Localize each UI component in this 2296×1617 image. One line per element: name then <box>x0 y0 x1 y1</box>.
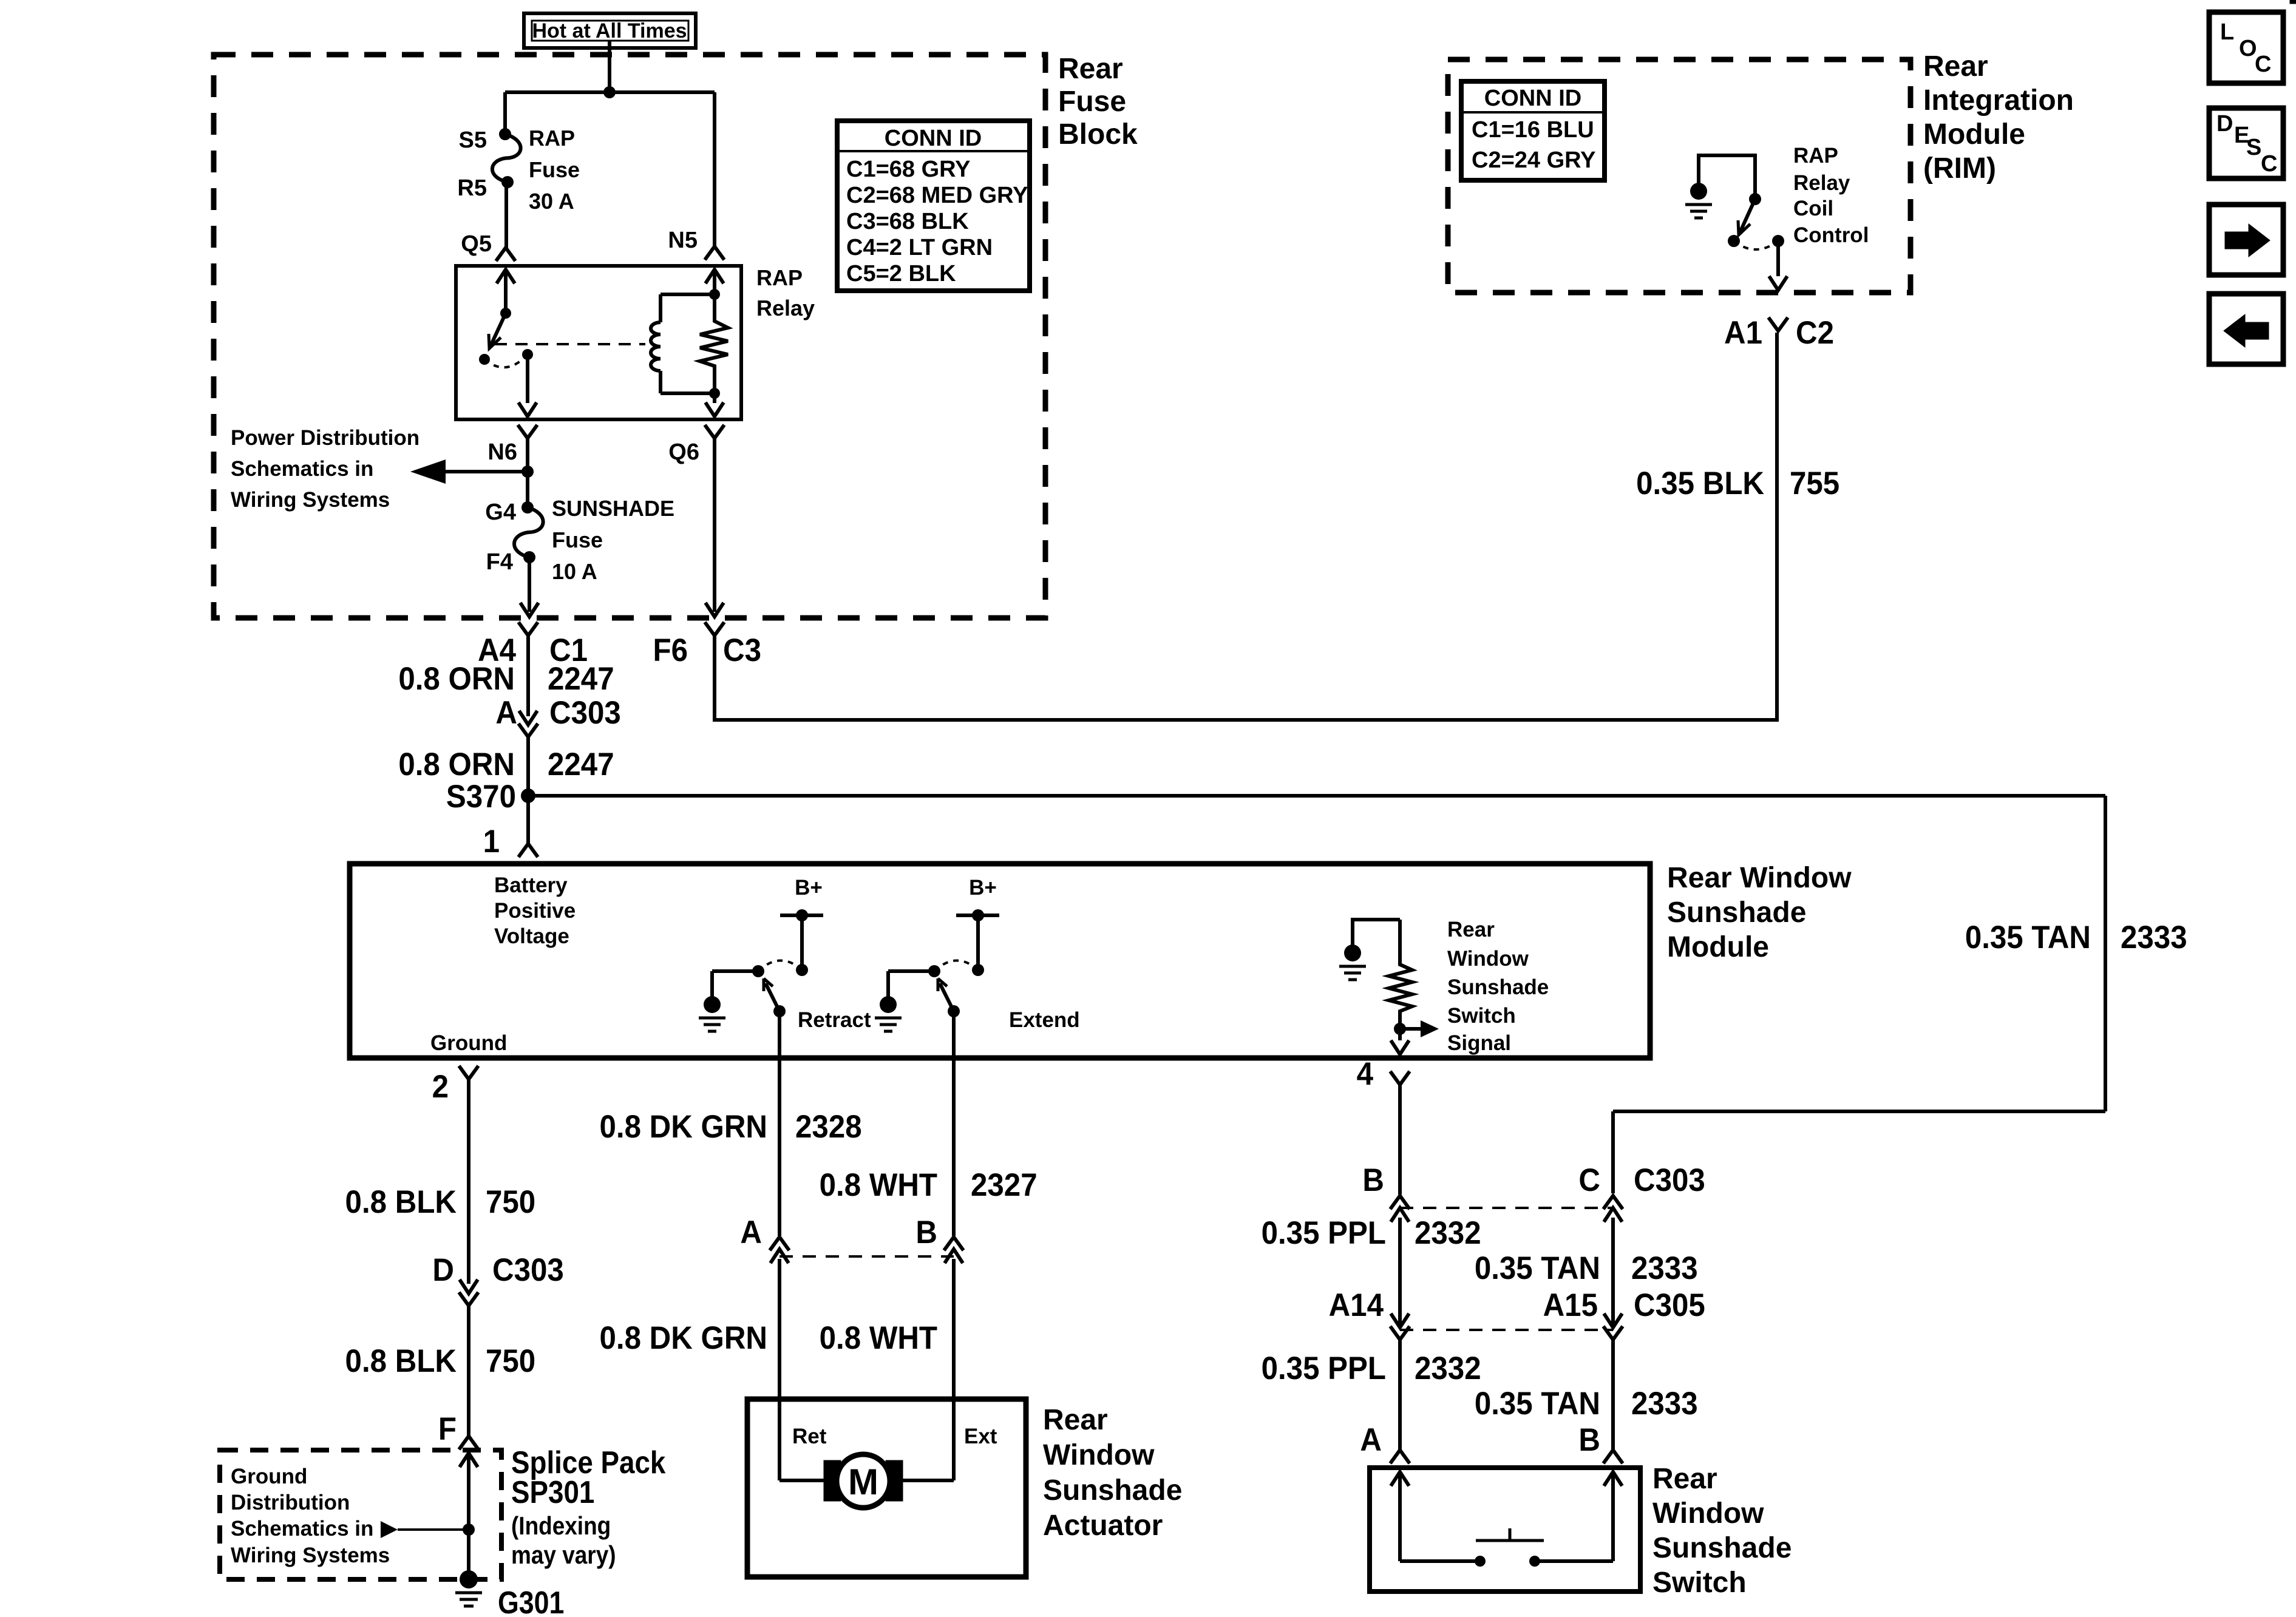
svg-text:Distribution: Distribution <box>231 1491 350 1514</box>
svg-text:2: 2 <box>432 1068 449 1104</box>
splice pack arrow entry <box>460 1453 478 1579</box>
svg-text:N6: N6 <box>487 439 517 465</box>
svg-text:(RIM): (RIM) <box>1923 152 1996 185</box>
svg-text:N5: N5 <box>668 228 698 253</box>
svg-text:Rear Window: Rear Window <box>1667 862 1852 894</box>
svg-text:0.8 ORN: 0.8 ORN <box>398 746 515 782</box>
wire branch to C connector <box>1613 1111 2105 1193</box>
connector A15 C305 <box>1543 1287 1705 1340</box>
svg-text:B+: B+ <box>969 876 997 900</box>
svg-text:M: M <box>848 1462 878 1502</box>
svg-text:A15: A15 <box>1543 1287 1598 1323</box>
relay switch arm <box>489 313 506 348</box>
connector B actuator <box>915 1214 963 1263</box>
svg-text:CONN ID: CONN ID <box>1484 86 1581 111</box>
svg-text:2333: 2333 <box>1631 1385 1698 1421</box>
svg-text:0.35 PPL: 0.35 PPL <box>1262 1215 1386 1250</box>
svg-text:RAP: RAP <box>1793 144 1838 168</box>
svg-text:Retract: Retract <box>798 1008 871 1032</box>
svg-text:D: D <box>2216 111 2233 137</box>
sidebar next arrow button <box>2209 205 2283 275</box>
relay coil junction bottom <box>709 388 720 399</box>
junction N6 tap <box>521 466 534 478</box>
label G301 <box>498 1585 564 1617</box>
pin B switch connector <box>1578 1422 1623 1463</box>
module extend contact left <box>888 965 940 977</box>
svg-text:A: A <box>1360 1422 1382 1457</box>
wire A15 down <box>1611 1340 1615 1450</box>
label wire 0.8 DK GRN lower <box>599 1320 767 1355</box>
module extend arm <box>938 978 960 1017</box>
label wire 0.35 PPL 2332 first <box>1262 1215 1481 1250</box>
svg-text:4: 4 <box>1357 1056 1374 1091</box>
relay coil L1 <box>651 294 715 393</box>
svg-text:R5: R5 <box>457 175 487 201</box>
svg-text:Switch: Switch <box>1447 1004 1516 1028</box>
relay coil junction top <box>709 289 720 300</box>
pin A switch connector <box>1360 1422 1410 1463</box>
switch pushbutton <box>1400 1528 1613 1567</box>
label wire 0.35 TAN 2333 mid <box>1475 1250 1698 1286</box>
svg-text:755: 755 <box>1790 465 1839 501</box>
svg-text:0.35 BLK: 0.35 BLK <box>1636 465 1764 501</box>
svg-text:Actuator: Actuator <box>1043 1510 1163 1542</box>
svg-text:C5=2 BLK: C5=2 BLK <box>846 261 956 286</box>
svg-text:10 A: 10 A <box>552 559 597 584</box>
svg-text:Wiring Systems: Wiring Systems <box>231 1544 390 1567</box>
label wire 0.8 BLK 750 upper <box>345 1184 536 1219</box>
Rear Window Sunshade Switch box <box>1370 1468 1640 1592</box>
ground RIM relay coil driver <box>1685 183 1712 218</box>
label wire 0.8 WHT 2327 <box>820 1167 1038 1202</box>
svg-text:F: F <box>438 1411 457 1446</box>
label wire 0.8 WHT lower <box>820 1320 937 1355</box>
svg-text:CONN ID: CONN ID <box>885 126 982 151</box>
svg-text:A14: A14 <box>1329 1287 1384 1323</box>
svg-text:Block: Block <box>1058 118 1138 151</box>
connector A1 C2 <box>1724 314 1834 350</box>
svg-text:Rear: Rear <box>1923 50 1988 83</box>
label wire 0.8 BLK 750 lower <box>345 1343 536 1378</box>
ground G301 <box>455 1570 482 1606</box>
svg-text:0.8 BLK: 0.8 BLK <box>345 1184 457 1219</box>
label Rear Integration Module (RIM) <box>1923 50 2074 185</box>
table CONN ID (RIM) <box>1461 81 1605 180</box>
svg-text:Rear: Rear <box>1058 53 1123 85</box>
svg-text:0.8 DK GRN: 0.8 DK GRN <box>599 1108 767 1144</box>
dashed connector line actuator <box>779 1255 954 1258</box>
svg-text:750: 750 <box>486 1184 535 1219</box>
wire S370 to module pin 1 <box>526 796 530 844</box>
wire F6 to RIM path <box>715 333 1777 720</box>
svg-text:L: L <box>2220 19 2234 45</box>
relay common contact <box>500 308 511 319</box>
svg-text:C303: C303 <box>549 694 621 730</box>
resistor switch signal <box>1389 920 1412 1029</box>
module extend dashed arc <box>934 960 978 971</box>
junction switch signal <box>1394 1023 1406 1035</box>
connector C C303 <box>1578 1162 1705 1222</box>
connector F6 C3 <box>653 622 761 668</box>
svg-text:C2: C2 <box>1796 314 1834 350</box>
label RAP Relay <box>756 265 815 320</box>
label wire 0.8 ORN 2247 lower <box>398 746 614 782</box>
connector A14 C305 <box>1329 1287 1410 1340</box>
svg-text:Schematics in: Schematics in <box>231 457 373 481</box>
module extend driver B+ <box>956 876 999 976</box>
connector B C303 <box>1362 1162 1410 1222</box>
svg-text:Coil: Coil <box>1793 197 1833 220</box>
svg-text:Module: Module <box>1667 931 1769 963</box>
wire retract pin <box>778 1011 781 1236</box>
svg-text:RAP: RAP <box>529 126 575 151</box>
svg-text:Sunshade: Sunshade <box>1667 897 1806 929</box>
Rear Fuse Block dashed outline <box>214 55 1045 618</box>
ground switch signal pullup <box>1339 920 1400 980</box>
svg-text:Window: Window <box>1447 947 1529 971</box>
wire S370 branch right <box>528 794 2105 798</box>
switch pin B entry arrow <box>1604 1472 1622 1561</box>
svg-text:0.8 ORN: 0.8 ORN <box>398 660 515 696</box>
svg-text:F4: F4 <box>486 549 513 575</box>
pin F connector <box>438 1411 478 1449</box>
connector D C303 inline <box>432 1252 563 1306</box>
module retract dashed arc <box>758 960 802 971</box>
svg-text:RAP: RAP <box>756 265 803 290</box>
Rear Integration Module dashed outline <box>1448 59 1911 293</box>
Splice Pack SP301 dashed outline <box>220 1450 501 1579</box>
svg-text:Power Distribution: Power Distribution <box>231 426 419 450</box>
dashed connector line C305 <box>1400 1329 1613 1331</box>
fuse RAP Fuse 30 A <box>492 126 580 214</box>
label wire 0.35 PPL 2332 second <box>1262 1350 1481 1386</box>
pin 1 connector fork <box>518 844 538 857</box>
label Rear Window Sunshade Switch <box>1652 1463 1792 1599</box>
wire actuator internal <box>779 1479 954 1482</box>
motor M brushes <box>824 1460 903 1501</box>
pin G4 <box>485 500 534 525</box>
resistor relay shunt <box>700 294 728 393</box>
wire hot feed horizontal bus <box>505 90 715 94</box>
svg-text:0.8 WHT: 0.8 WHT <box>820 1167 937 1202</box>
Rear Window Sunshade Actuator box <box>747 1399 1026 1577</box>
svg-text:B: B <box>1578 1422 1600 1457</box>
svg-text:C3=68 BLK: C3=68 BLK <box>846 209 969 234</box>
wire B down <box>1398 1218 1402 1326</box>
svg-text:Fuse: Fuse <box>1058 86 1126 118</box>
svg-text:C: C <box>1578 1162 1600 1198</box>
relay contact left <box>479 354 490 365</box>
svg-text:Voltage: Voltage <box>494 924 569 948</box>
svg-text:C3: C3 <box>723 632 761 668</box>
power feed label Hot at All Times <box>524 13 696 48</box>
label Rear Fuse Block <box>1058 53 1138 151</box>
svg-text:A: A <box>740 1214 762 1250</box>
connector A actuator <box>740 1214 789 1263</box>
table CONN ID (fuse block) <box>837 121 1030 291</box>
svg-text:2333: 2333 <box>2121 919 2187 955</box>
pin 4 connector <box>1357 1056 1410 1091</box>
svg-text:B+: B+ <box>795 876 823 900</box>
svg-text:C305: C305 <box>1634 1287 1705 1323</box>
wire F4 to fuse block edge <box>520 557 538 617</box>
svg-text:Relay: Relay <box>1793 171 1850 195</box>
relay pin Q5 entry arrow <box>497 269 515 313</box>
label RAP Relay Coil Control <box>1793 144 1869 247</box>
wire bus to N5 <box>713 92 716 246</box>
svg-text:S370: S370 <box>446 778 516 814</box>
svg-text:G301: G301 <box>498 1585 564 1617</box>
svg-text:Ext: Ext <box>964 1425 997 1448</box>
wire relay right contact to N6 <box>518 354 537 416</box>
pin 2 connector <box>432 1066 478 1104</box>
svg-text:Fuse: Fuse <box>552 527 603 552</box>
svg-text:2332: 2332 <box>1415 1350 1481 1386</box>
pin S5 <box>459 127 511 153</box>
wire B to actuator <box>952 1259 956 1480</box>
relay RAP Relay box <box>456 266 741 419</box>
RIM switch pivot contact <box>1749 193 1761 205</box>
sidebar prev arrow button <box>2209 294 2283 364</box>
arrow ground distribution tap <box>381 1521 469 1538</box>
svg-text:Ground: Ground <box>430 1031 507 1055</box>
svg-text:Sunshade: Sunshade <box>1043 1474 1182 1507</box>
svg-text:Q5: Q5 <box>461 231 492 257</box>
svg-text:B: B <box>1362 1162 1384 1198</box>
svg-text:Hot at All Times: Hot at All Times <box>532 19 687 42</box>
wire A to actuator <box>778 1259 781 1480</box>
label Power Distribution Schematics in Wiring Systems <box>231 426 419 512</box>
RIM switch contact left <box>1728 235 1740 247</box>
pin R5 <box>457 175 514 201</box>
ground retract driver <box>699 971 725 1031</box>
relay pin Q6 exit arrow <box>705 393 724 416</box>
svg-text:Module: Module <box>1923 118 2025 151</box>
svg-text:C: C <box>2261 151 2277 177</box>
svg-text:may vary): may vary) <box>511 1541 616 1570</box>
fuse SUNSHADE Fuse 10 A <box>514 496 674 584</box>
svg-text:SUNSHADE: SUNSHADE <box>552 496 674 521</box>
switch pin A entry arrow <box>1391 1472 1409 1561</box>
label wire 0.35 TAN 2333 right <box>1965 919 2187 955</box>
wire A14 down <box>1398 1340 1402 1450</box>
wire branch down right side <box>2104 796 2107 1111</box>
svg-text:D: D <box>432 1252 454 1287</box>
svg-text:Q6: Q6 <box>668 439 699 465</box>
label Battery Positive Voltage <box>494 873 576 948</box>
label Rear Window Sunshade Actuator <box>1043 1404 1182 1542</box>
junction splice tap <box>463 1524 475 1536</box>
RIM switch arm <box>1738 199 1755 235</box>
svg-text:C1=16 BLU: C1=16 BLU <box>1472 117 1594 143</box>
relay contact right <box>522 349 533 360</box>
svg-text:A: A <box>495 694 517 730</box>
svg-text:B: B <box>915 1214 937 1250</box>
label Rear Window Sunshade Module <box>1667 862 1852 963</box>
svg-text:Ret: Ret <box>792 1425 827 1448</box>
pin N6 connector <box>487 425 537 465</box>
label Retract <box>798 1008 871 1032</box>
svg-text:Signal: Signal <box>1447 1031 1511 1055</box>
svg-text:F6: F6 <box>653 632 688 668</box>
svg-text:2327: 2327 <box>971 1167 1038 1202</box>
label Ground <box>430 1031 507 1055</box>
svg-text:Integration: Integration <box>1923 84 2074 117</box>
svg-text:Wiring Systems: Wiring Systems <box>231 488 390 512</box>
svg-text:Control: Control <box>1793 223 1869 247</box>
svg-text:1: 1 <box>483 823 500 859</box>
svg-text:S: S <box>2246 135 2261 160</box>
svg-text:Extend: Extend <box>1009 1008 1080 1032</box>
svg-text:2328: 2328 <box>795 1108 862 1144</box>
svg-text:Positive: Positive <box>494 899 576 923</box>
svg-text:750: 750 <box>486 1343 535 1378</box>
svg-text:0.35 TAN: 0.35 TAN <box>1965 919 2091 955</box>
arrow switch signal tap <box>1400 1020 1439 1037</box>
svg-text:0.8 DK GRN: 0.8 DK GRN <box>599 1320 767 1355</box>
svg-text:0.35 TAN: 0.35 TAN <box>1475 1250 1600 1286</box>
wire ground to splice <box>467 1306 470 1436</box>
label Ret Ext <box>792 1425 997 1448</box>
svg-text:Battery: Battery <box>494 873 568 897</box>
wire tap to power distribution arrow <box>410 459 528 484</box>
svg-text:Schematics in: Schematics in <box>231 1517 373 1541</box>
label wire 0.35 BLK 755 <box>1636 465 1839 501</box>
svg-text:Window: Window <box>1652 1497 1764 1530</box>
svg-text:Sunshade: Sunshade <box>1652 1532 1792 1564</box>
label Ground Distribution Schematics in Wiring Systems <box>231 1465 390 1567</box>
RIM switch contact right <box>1772 235 1784 247</box>
svg-text:Sunshade: Sunshade <box>1447 975 1549 999</box>
svg-text:C: C <box>2255 52 2271 77</box>
svg-text:2247: 2247 <box>548 746 614 782</box>
wire hot feed vertical <box>608 40 611 92</box>
svg-text:2247: 2247 <box>548 660 614 696</box>
svg-text:SP301: SP301 <box>511 1475 594 1510</box>
label wire 0.8 DK GRN 2328 <box>599 1108 861 1144</box>
wire C303 to S370 <box>526 737 530 796</box>
label Rear Window Sunshade Switch Signal <box>1447 918 1549 1055</box>
pin F4 <box>486 549 535 575</box>
pin 1 label <box>483 823 500 859</box>
svg-text:Ground: Ground <box>231 1465 307 1488</box>
junction hot feed <box>603 86 616 98</box>
svg-text:2332: 2332 <box>1415 1215 1481 1250</box>
svg-text:C303: C303 <box>1634 1162 1705 1198</box>
svg-text:Fuse: Fuse <box>529 157 580 182</box>
svg-text:0.8 BLK: 0.8 BLK <box>345 1343 457 1378</box>
svg-text:0.35 PPL: 0.35 PPL <box>1262 1350 1386 1386</box>
wire ground pin 2 down <box>467 1079 470 1284</box>
svg-text:C4=2 LT GRN: C4=2 LT GRN <box>846 235 993 260</box>
wire Q6 down to edge <box>705 438 724 617</box>
svg-text:G4: G4 <box>485 500 516 525</box>
svg-text:Rear: Rear <box>1043 1404 1108 1436</box>
corner mark <box>2290 0 2296 4</box>
module retract contact left <box>712 965 764 977</box>
relay pin N5 entry arrow <box>705 269 724 294</box>
label wire 0.8 ORN 2247 upper <box>398 660 614 696</box>
svg-text:Rear: Rear <box>1652 1463 1717 1495</box>
connector A4 C1 <box>478 622 588 668</box>
wire bus to S5 <box>503 92 507 134</box>
relay contact dashed arc <box>484 354 528 367</box>
svg-text:C303: C303 <box>492 1252 564 1287</box>
svg-text:S5: S5 <box>459 127 487 153</box>
svg-text:(Indexing: (Indexing <box>511 1512 611 1541</box>
label Extend <box>1009 1008 1080 1032</box>
pin Q5 connector <box>461 231 515 261</box>
pin Q6 connector <box>668 425 724 465</box>
svg-text:0.35 TAN: 0.35 TAN <box>1475 1385 1600 1421</box>
connector A C303 inline <box>495 694 620 737</box>
wire extend pin <box>952 1011 956 1236</box>
dashed connector line C303 <box>1400 1207 1613 1209</box>
svg-text:Relay: Relay <box>756 296 815 320</box>
ground extend driver <box>875 971 902 1031</box>
wire C down <box>1611 1218 1615 1326</box>
svg-text:A1: A1 <box>1724 314 1762 350</box>
module retract driver B+ <box>780 876 823 976</box>
label Splice Pack SP301 Indexing may vary <box>511 1445 666 1569</box>
splice S370 <box>446 778 535 814</box>
wire pin 4 internal <box>1391 1029 1409 1054</box>
pin N5 connector <box>668 228 724 260</box>
svg-text:Window: Window <box>1043 1439 1155 1471</box>
svg-text:30 A: 30 A <box>529 189 574 214</box>
svg-text:Rear: Rear <box>1447 918 1495 941</box>
wire RIM control out <box>1769 241 1787 290</box>
Rear Window Sunshade Module box <box>350 864 1650 1058</box>
wire RIM ground to switch <box>1699 155 1755 199</box>
svg-text:2333: 2333 <box>1631 1250 1698 1286</box>
wire A4 to C303 <box>526 636 530 716</box>
motor M <box>837 1454 890 1508</box>
svg-text:C2=24 GRY: C2=24 GRY <box>1472 147 1596 173</box>
svg-text:C1=68 GRY: C1=68 GRY <box>846 157 971 182</box>
svg-text:C2=68 MED GRY: C2=68 MED GRY <box>846 183 1028 208</box>
sidebar DESC button <box>2209 108 2283 178</box>
RIM switch dashed arc <box>1734 241 1778 249</box>
wire R5 to Q5 <box>504 182 508 248</box>
wire N6 down <box>526 438 529 507</box>
wire pin 4 down <box>1398 1085 1402 1195</box>
label wire 0.35 TAN 2333 lower <box>1475 1385 1698 1421</box>
module retract arm <box>764 978 786 1017</box>
relay mechanical link dashed <box>495 343 645 345</box>
sidebar LOC button <box>2209 12 2283 83</box>
svg-text:0.8 WHT: 0.8 WHT <box>820 1320 937 1355</box>
svg-text:Switch: Switch <box>1652 1567 1747 1599</box>
